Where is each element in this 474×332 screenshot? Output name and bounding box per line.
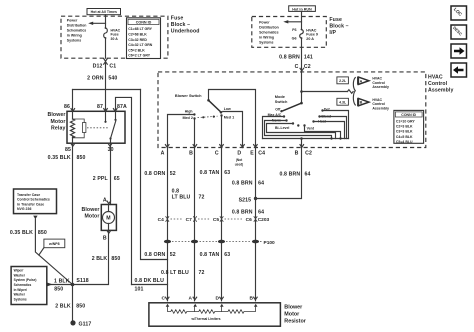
svg-text:Motor: Motor bbox=[284, 312, 300, 318]
resistor label bbox=[284, 305, 306, 325]
svg-text:P100: P100 bbox=[264, 240, 276, 246]
svg-text:4.3L: 4.3L bbox=[339, 101, 347, 105]
svg-text:Resistor: Resistor bbox=[284, 319, 306, 325]
svg-text:S118: S118 bbox=[76, 278, 88, 284]
svg-text:Wiper/: Wiper/ bbox=[14, 269, 24, 273]
wire 0.35 BLK 850 (transfer case, w/NP8) bbox=[10, 219, 73, 284]
svg-text:C203: C203 bbox=[258, 217, 270, 223]
connector D12 C1 bbox=[93, 59, 117, 70]
svg-text:C7: C7 bbox=[186, 217, 192, 223]
svg-text:LT BLU: LT BLU bbox=[172, 194, 191, 200]
svg-text:Transfer Case: Transfer Case bbox=[17, 193, 40, 197]
wire fuse to D12 bbox=[105, 38, 107, 58]
svg-text:141: 141 bbox=[304, 55, 313, 61]
variant tag 2.2L bbox=[337, 77, 349, 84]
svg-text:Systems: Systems bbox=[67, 39, 81, 43]
wire 0.35 BLK 850 (relay 85 to S118) bbox=[48, 143, 86, 284]
label Fuse Block Underhood bbox=[171, 16, 200, 35]
pin 87A bbox=[113, 104, 127, 111]
svg-text:Bi–Level: Bi–Level bbox=[275, 126, 289, 130]
svg-text:System (Pulse): System (Pulse) bbox=[14, 278, 37, 282]
svg-text:0.8 BRN: 0.8 BRN bbox=[232, 209, 253, 215]
med 2 contact and wire to pin B bbox=[182, 116, 195, 148]
connector row P100 bbox=[164, 240, 275, 246]
svg-text:63: 63 bbox=[224, 170, 230, 176]
svg-text:G6: G6 bbox=[292, 36, 297, 40]
svg-text:0.35 BLK: 0.35 BLK bbox=[48, 155, 71, 161]
svg-text:C5=4 BLU: C5=4 BLU bbox=[396, 140, 413, 144]
svg-text:C6=2 LT GRY: C6=2 LT GRY bbox=[128, 54, 151, 58]
connector C C2 (top) bbox=[295, 64, 311, 71]
wire 87A loop bbox=[116, 97, 132, 284]
svg-text:Assembly: Assembly bbox=[428, 87, 453, 93]
svg-text:2 BLK: 2 BLK bbox=[55, 303, 71, 309]
svg-text:in Wiring: in Wiring bbox=[67, 34, 82, 38]
svg-text:Control: Control bbox=[428, 81, 448, 87]
fuse HVAC Fuse 9 20 A with pins F6 G6 bbox=[292, 28, 318, 41]
svg-text:540: 540 bbox=[108, 75, 117, 81]
wire 2 BLK 850 (motor B to S118) bbox=[73, 230, 121, 284]
svg-text:Assembly: Assembly bbox=[372, 106, 389, 110]
svg-text:Blower: Blower bbox=[47, 112, 65, 118]
svg-text:72: 72 bbox=[199, 194, 205, 200]
svg-text:0.8 ORN: 0.8 ORN bbox=[144, 171, 165, 177]
svg-text:C4: C4 bbox=[258, 150, 265, 156]
svg-text:0.8 LT BLU: 0.8 LT BLU bbox=[161, 270, 189, 276]
CONN ID table (HVAC) bbox=[394, 110, 424, 144]
switch linkage dashes bbox=[198, 116, 218, 119]
svg-text:C5=2 BLK: C5=2 BLK bbox=[128, 48, 145, 52]
wire 2 BLK 850 (S118 to G117) bbox=[55, 285, 85, 322]
relay K: blower motor relay box bbox=[67, 111, 125, 143]
svg-text:2 ORN: 2 ORN bbox=[87, 75, 104, 81]
svg-text:850: 850 bbox=[77, 155, 86, 161]
svg-text:0.8 BRN: 0.8 BRN bbox=[279, 55, 300, 61]
svg-text:87A: 87A bbox=[117, 104, 127, 110]
wire 0.8 DK BLU 101 (87A to resistor C) bbox=[132, 278, 168, 292]
svg-text:C2: C2 bbox=[305, 150, 312, 156]
relay label bbox=[47, 112, 65, 131]
svg-text:NVG 236: NVG 236 bbox=[17, 207, 31, 211]
wire 2 ORN 540 bbox=[87, 62, 117, 111]
motor pin A bbox=[103, 197, 111, 203]
svg-text:in Transfer Case: in Transfer Case bbox=[17, 202, 44, 206]
wire to relay pin 86 bbox=[72, 90, 74, 112]
svg-text:63: 63 bbox=[224, 252, 230, 258]
svg-text:CONN ID: CONN ID bbox=[401, 113, 416, 117]
arrow to power distribution bbox=[88, 22, 105, 25]
blower motor M1 bbox=[101, 205, 116, 231]
svg-text:Washer: Washer bbox=[14, 293, 26, 297]
mode switch wiper bbox=[283, 102, 303, 111]
svg-text:Underhood: Underhood bbox=[171, 29, 200, 35]
button LOC bbox=[451, 6, 467, 20]
svg-text:F6: F6 bbox=[292, 28, 296, 32]
svg-text:Motor: Motor bbox=[50, 119, 65, 125]
svg-text:52: 52 bbox=[170, 171, 176, 177]
svg-text:0.8 DK BLU: 0.8 DK BLU bbox=[135, 278, 165, 284]
svg-text:Low: Low bbox=[224, 107, 231, 111]
fuse F: HVAC Fuse 30 A bbox=[104, 27, 121, 41]
button next (right arrow) bbox=[451, 44, 467, 58]
svg-text:I/P: I/P bbox=[329, 30, 336, 36]
svg-text:85: 85 bbox=[65, 147, 71, 153]
med 1 contact and wire to pin C bbox=[220, 114, 234, 147]
svg-text:Power: Power bbox=[67, 19, 78, 23]
mode switch label bbox=[275, 94, 288, 104]
branch to engine variant connectors bbox=[302, 78, 356, 106]
svg-text:B: B bbox=[295, 150, 299, 156]
svg-text:Relay: Relay bbox=[51, 125, 65, 131]
svg-text:Blower: Blower bbox=[284, 305, 303, 311]
svg-text:C3=3 BLK: C3=3 BLK bbox=[396, 130, 413, 134]
svg-text:Schematics: Schematics bbox=[259, 31, 279, 35]
svg-text:Fuse: Fuse bbox=[329, 17, 342, 23]
off-page connector B (4.3L HVAC control assembly) bbox=[358, 98, 389, 110]
svg-text:Schematics: Schematics bbox=[14, 283, 32, 287]
svg-text:Assembly: Assembly bbox=[372, 85, 389, 89]
svg-text:65: 65 bbox=[114, 176, 120, 182]
svg-text:in Wiring: in Wiring bbox=[259, 36, 274, 40]
svg-text:C4: C4 bbox=[158, 217, 164, 223]
tag w/NP8 bbox=[39, 239, 65, 255]
svg-text:C5: C5 bbox=[213, 217, 219, 223]
pin 30 bbox=[108, 144, 114, 153]
svg-text:101: 101 bbox=[135, 286, 144, 292]
svg-text:2.2L: 2.2L bbox=[339, 79, 347, 83]
svg-text:64: 64 bbox=[258, 209, 264, 215]
svg-text:C1: C1 bbox=[109, 63, 116, 69]
svg-text:2 PPL: 2 PPL bbox=[93, 176, 109, 182]
svg-text:72: 72 bbox=[199, 270, 205, 276]
svg-text:B: B bbox=[250, 296, 254, 302]
svg-text:87: 87 bbox=[97, 104, 103, 110]
svg-text:A: A bbox=[103, 197, 107, 203]
svg-text:Off: Off bbox=[275, 107, 281, 111]
svg-text:0.8 BRN: 0.8 BRN bbox=[232, 180, 253, 186]
svg-text:0.35 BLK: 0.35 BLK bbox=[10, 230, 33, 236]
ground G117 bbox=[70, 320, 91, 327]
svg-text:Switch: Switch bbox=[275, 99, 288, 104]
svg-text:Hot in RUN: Hot in RUN bbox=[292, 7, 312, 11]
mode switch position labels bbox=[268, 107, 332, 130]
arrow out of transfer case box bbox=[33, 216, 37, 220]
svg-text:C3=32 RED: C3=32 RED bbox=[128, 38, 147, 42]
svg-text:Motor: Motor bbox=[84, 214, 99, 220]
motor label bbox=[81, 207, 99, 220]
svg-text:Schematics: Schematics bbox=[67, 29, 87, 33]
svg-text:G117: G117 bbox=[79, 322, 92, 328]
wire A 0.8 ORN 52 bbox=[144, 148, 175, 301]
svg-text:B: B bbox=[360, 101, 363, 105]
svg-text:B: B bbox=[189, 150, 193, 156]
svg-text:w/Thermal Limiters: w/Thermal Limiters bbox=[191, 317, 221, 321]
svg-text:S215: S215 bbox=[239, 198, 252, 204]
hvac control assembly label bbox=[428, 74, 453, 93]
power label Hot at All Times bbox=[87, 9, 121, 15]
connector row C4 C7 C5 C6/C203 bbox=[158, 217, 270, 224]
svg-text:0.8 TAN: 0.8 TAN bbox=[200, 252, 220, 258]
wire 2 PPL 65 (relay 30 to motor A) bbox=[93, 143, 120, 204]
svg-text:D12: D12 bbox=[93, 63, 103, 69]
svg-text:Blower: Blower bbox=[81, 207, 99, 213]
label Fuse Block I/P bbox=[329, 17, 348, 36]
svg-text:D: D bbox=[237, 150, 241, 156]
svg-text:86: 86 bbox=[64, 104, 70, 110]
svg-text:C: C bbox=[162, 296, 166, 302]
svg-text:52: 52 bbox=[170, 252, 176, 258]
svg-text:Control Schematics: Control Schematics bbox=[17, 198, 50, 202]
svg-text:Systems: Systems bbox=[259, 41, 273, 45]
svg-text:Med 2: Med 2 bbox=[182, 116, 192, 120]
node: relay feed horizontal (86/87 tie) bbox=[73, 89, 141, 91]
blower switch pin chevrons A B C D E bbox=[165, 145, 257, 148]
svg-text:High: High bbox=[185, 109, 193, 113]
wire 0.8 BRN 141 bbox=[279, 38, 313, 72]
svg-text:C2=3 BLK: C2=3 BLK bbox=[396, 125, 413, 129]
svg-text:Block –: Block – bbox=[171, 22, 190, 28]
mode switch contact wiring (nested) bbox=[263, 111, 349, 148]
off-page connector A (2.2L HVAC control assembly) bbox=[358, 77, 389, 89]
relay switch contacts bbox=[87, 111, 117, 143]
wire C 0.8 TAN 63 bbox=[200, 148, 231, 301]
wire hot in run to fuse bbox=[301, 11, 303, 29]
svg-text:C1=10 GRY: C1=10 GRY bbox=[396, 119, 416, 123]
svg-text:1 BLK: 1 BLK bbox=[54, 278, 70, 284]
svg-text:64: 64 bbox=[305, 172, 311, 178]
pin B C2 (mode switch output) bbox=[295, 145, 312, 157]
resistor pin chevrons and labels C A D B bbox=[162, 296, 258, 302]
svg-text:Hot at All Times: Hot at All Times bbox=[91, 10, 117, 14]
svg-text:C: C bbox=[295, 64, 299, 70]
svg-text:0.8 BRN: 0.8 BRN bbox=[279, 172, 300, 178]
power label Hot in RUN bbox=[289, 6, 316, 12]
svg-text:D: D bbox=[216, 296, 220, 302]
svg-text:Med 1: Med 1 bbox=[224, 116, 234, 120]
button prev (left arrow) bbox=[451, 63, 467, 77]
wire E 0.8 BRN 64 with S215 bbox=[232, 148, 264, 301]
svg-text:A: A bbox=[161, 150, 165, 156]
svg-text:Fuse: Fuse bbox=[171, 16, 184, 22]
svg-text:C4=32 LT GRN: C4=32 LT GRN bbox=[128, 43, 153, 47]
fuse block underhood box bbox=[61, 16, 168, 58]
wire B 0.8 LT BLU 72 bbox=[161, 148, 205, 301]
svg-text:used): used) bbox=[235, 162, 244, 166]
svg-text:A: A bbox=[360, 79, 363, 83]
wire from Hot at All Times into fuse bbox=[105, 15, 107, 28]
svg-text:w/NP8: w/NP8 bbox=[48, 242, 60, 246]
mode switch contacts bbox=[280, 109, 323, 126]
svg-text:0.8 ORN: 0.8 ORN bbox=[144, 252, 165, 258]
svg-text:Washer: Washer bbox=[14, 273, 26, 277]
svg-text:E: E bbox=[250, 150, 254, 156]
note not used (pin D) bbox=[235, 158, 244, 166]
svg-text:HVAC: HVAC bbox=[428, 74, 443, 80]
text power distribution schematics (I/P) bbox=[259, 21, 279, 45]
pin 86 bbox=[64, 104, 75, 111]
high contact and wire to pin A bbox=[168, 109, 196, 147]
hvac control assembly box bbox=[158, 72, 426, 148]
variant tag 4.3L bbox=[337, 98, 349, 105]
junction S118 bbox=[71, 278, 89, 287]
pin labels A B C D E C4 bbox=[161, 150, 266, 156]
blower switch wiper bbox=[207, 99, 222, 114]
svg-text:30 A: 30 A bbox=[111, 37, 119, 41]
svg-text:C2: C2 bbox=[304, 64, 311, 70]
pin 85 bbox=[65, 144, 75, 153]
svg-text:M: M bbox=[106, 216, 110, 222]
button DESC bbox=[451, 25, 467, 39]
svg-text:A: A bbox=[189, 296, 193, 302]
svg-text:Block –: Block – bbox=[329, 23, 348, 29]
svg-text:64: 64 bbox=[258, 180, 264, 186]
wire right feed down to orn wire bbox=[141, 90, 168, 260]
wiper washer reference box bbox=[11, 267, 47, 305]
svg-text:20 A: 20 A bbox=[306, 37, 314, 41]
svg-text:Blower Switch: Blower Switch bbox=[175, 93, 202, 98]
svg-text:C2=68 BLK: C2=68 BLK bbox=[128, 33, 147, 37]
CONN ID table (underhood) bbox=[127, 18, 161, 59]
motor pin B bbox=[103, 231, 111, 242]
wire C2 into mode switch pivot bbox=[300, 72, 303, 103]
svg-text:C1=68 LT GRY: C1=68 LT GRY bbox=[128, 27, 152, 31]
resistor internals with thermal limiter bbox=[166, 304, 258, 321]
pin 87 bbox=[97, 104, 107, 111]
fuse block I/P box bbox=[252, 17, 326, 48]
svg-text:C: C bbox=[215, 150, 219, 156]
arrow to power distribution (I/P) bbox=[283, 20, 301, 23]
svg-text:C4=5 BLK: C4=5 BLK bbox=[396, 135, 413, 139]
blower switch wiper wire to pin E bbox=[209, 90, 256, 148]
svg-text:0.8 TAN: 0.8 TAN bbox=[200, 170, 220, 176]
text power distribution schematics (underhood) bbox=[67, 19, 87, 43]
transfer case reference box bbox=[14, 189, 57, 214]
wire 1 BLK 850 (wiper to S118) bbox=[47, 278, 72, 292]
svg-text:Power: Power bbox=[259, 21, 270, 25]
svg-text:B: B bbox=[103, 235, 107, 241]
wire 0.8 BRN 64 (mode switch to S215) bbox=[256, 148, 311, 199]
relay coil with parallel resistor bbox=[70, 111, 86, 143]
svg-text:Systems: Systems bbox=[14, 297, 27, 301]
svg-text:in Wiper/: in Wiper/ bbox=[14, 288, 28, 292]
svg-text:C6: C6 bbox=[246, 217, 252, 223]
svg-text:Distribution: Distribution bbox=[259, 26, 279, 30]
svg-text:850: 850 bbox=[38, 230, 47, 236]
blower motor resistor box bbox=[149, 303, 281, 326]
svg-text:CONN ID: CONN ID bbox=[136, 21, 152, 25]
low contact and wire to pin D bbox=[223, 107, 243, 148]
svg-text:850: 850 bbox=[54, 287, 63, 293]
svg-text:850: 850 bbox=[76, 303, 85, 309]
svg-text:Distribution: Distribution bbox=[67, 24, 87, 28]
svg-text:Vent: Vent bbox=[307, 127, 315, 131]
svg-text:2 BLK: 2 BLK bbox=[92, 256, 108, 262]
svg-text:850: 850 bbox=[111, 256, 120, 262]
